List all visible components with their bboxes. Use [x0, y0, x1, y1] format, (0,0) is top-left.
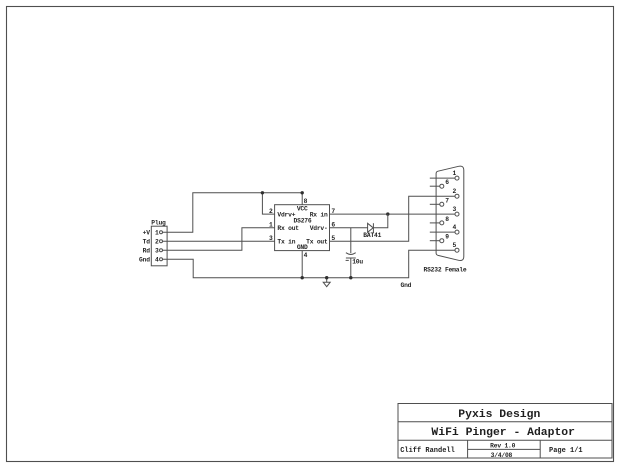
svg-text:1: 1	[453, 170, 457, 177]
wire U1 pin7 Rx in to RS232 pin3	[330, 213, 456, 215]
node junction diode branch on Rx in wire	[386, 212, 389, 215]
title block	[398, 404, 612, 459]
wire branch VCC rail to U1 pin2 Vdrv+	[262, 193, 274, 214]
wire U1 pin4 GND stub down to ground rail	[301, 251, 303, 278]
ground symbol triangle	[323, 282, 330, 287]
svg-text:2: 2	[453, 188, 457, 195]
svg-text:Gnd: Gnd	[401, 282, 412, 289]
capacitor C1 curved plate	[346, 253, 356, 255]
connector J2 RS232 female shell	[436, 166, 464, 260]
diode D1 cathode bar	[372, 223, 374, 232]
svg-text:3/4/08: 3/4/08	[491, 452, 513, 459]
J1 pin 1 circle	[160, 231, 163, 234]
J1 pin 4 circle	[160, 258, 163, 261]
svg-text:Vdrv-: Vdrv-	[310, 225, 328, 232]
svg-text:Plug: Plug	[151, 220, 166, 227]
capacitor C1 flat plate	[346, 257, 356, 259]
svg-text:Tx out: Tx out	[306, 238, 328, 245]
svg-text:Vdrv+: Vdrv+	[277, 211, 295, 218]
J2 pin 1 circle	[455, 176, 459, 180]
capacitor C1 wire to ground rail	[350, 258, 352, 278]
svg-text:RS232 Female: RS232 Female	[424, 266, 467, 273]
wire diode cathode up to Rx in wire	[373, 214, 387, 228]
svg-text:3: 3	[453, 206, 457, 213]
svg-text:4: 4	[155, 257, 159, 264]
wire U1 pin5 Tx out to RS232 pin2	[330, 196, 456, 241]
connector J1 Plug body	[151, 226, 167, 266]
svg-text:Rd: Rd	[143, 248, 151, 255]
svg-text:Rev 1.0: Rev 1.0	[490, 442, 515, 449]
node junction on VCC rail at x262	[261, 191, 264, 194]
J1 pin 2 circle	[160, 240, 163, 243]
svg-text:Rx in: Rx in	[310, 211, 328, 218]
svg-text:WiFi Pinger - Adaptor: WiFi Pinger - Adaptor	[431, 427, 575, 439]
wire U1 pin6 Vdrv- to diode anode	[330, 227, 368, 229]
svg-text:1: 1	[155, 230, 159, 237]
svg-text:Gnd: Gnd	[139, 257, 150, 264]
svg-text:VCC: VCC	[297, 206, 308, 213]
svg-text:9: 9	[445, 234, 449, 241]
svg-text:8: 8	[445, 216, 449, 223]
J2 pin 8 stub lead	[430, 222, 440, 224]
svg-text:10u: 10u	[352, 259, 363, 266]
capacitor C1 polarity dash	[346, 259, 349, 261]
svg-text:7: 7	[445, 197, 449, 204]
J2 pin 7 circle	[440, 202, 444, 206]
node junction ground rail at U1 pin4	[301, 276, 304, 279]
J2 pin 9 stub lead	[430, 240, 440, 242]
wire Rd from plug pin3 to U1 pin1 Rx out	[163, 228, 275, 251]
svg-text:2: 2	[155, 239, 159, 246]
J2 pin 7 stub lead	[430, 203, 440, 205]
J2 pin 4 stub lead	[430, 231, 455, 233]
svg-text:6: 6	[445, 179, 449, 186]
svg-text:5: 5	[453, 242, 457, 249]
wire Gnd from plug pin4 to ground rail	[163, 250, 456, 278]
J2 pin 6 stub lead	[430, 185, 440, 187]
svg-text:DS276: DS276	[294, 217, 312, 224]
J2 pin 1 stub lead	[430, 177, 455, 179]
svg-text:Rx out: Rx out	[277, 225, 299, 232]
svg-text:4: 4	[453, 224, 457, 231]
J2 pin 2 circle	[455, 194, 459, 198]
wire Td from plug pin2 to U1 pin3 Tx in	[163, 240, 275, 242]
J1 pin 3 circle	[160, 249, 163, 252]
node junction ground rail at ground symbol	[325, 276, 328, 279]
J2 pin 8 circle	[440, 221, 444, 225]
svg-text:Page 1/1: Page 1/1	[549, 447, 583, 455]
capacitor C1 wire from Vdrv- line down	[350, 228, 352, 253]
wire +V from plug pin1 up to VCC rail and U1 pin8	[163, 193, 303, 233]
node junction on VCC rail at x302	[301, 191, 304, 194]
op IC U1 DS276 body	[275, 205, 330, 251]
J2 pin 5 circle	[455, 248, 459, 252]
svg-text:Cliff Randell: Cliff Randell	[400, 447, 455, 455]
ground symbol stem	[326, 278, 328, 283]
svg-text:4: 4	[304, 252, 308, 259]
node junction ground rail at capacitor	[349, 276, 352, 279]
svg-text:Pyxis Design: Pyxis Design	[458, 409, 540, 421]
svg-text:8: 8	[304, 198, 308, 205]
J2 pin 4 circle	[455, 230, 459, 234]
diode D1 BAT41 triangle	[368, 223, 374, 232]
svg-text:BAT41: BAT41	[363, 232, 381, 239]
J2 pin 6 circle	[440, 184, 444, 188]
svg-text:Td: Td	[143, 239, 151, 246]
J2 pin 3 circle	[455, 212, 459, 216]
svg-text:Tx in: Tx in	[277, 238, 295, 245]
svg-text:+V: +V	[143, 230, 151, 237]
J2 pin 9 circle	[440, 239, 444, 243]
svg-text:3: 3	[155, 248, 159, 255]
